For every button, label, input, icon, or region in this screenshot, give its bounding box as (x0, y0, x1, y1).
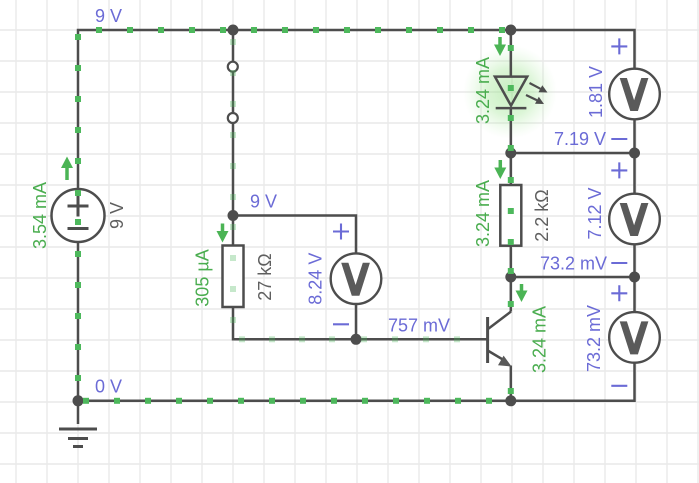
label 3.24 mA Q1 (530, 306, 550, 373)
left rail dots (75, 34, 81, 40)
wire row2 (511, 152, 635, 155)
label 3.24 mA R2 (473, 180, 493, 247)
current arrow R1 (217, 224, 229, 243)
resistor R2 label 2.2 kOhm (532, 189, 552, 241)
label 1.81 V (586, 66, 606, 118)
minus M2 (611, 262, 627, 264)
wire bottom rail (78, 362, 635, 400)
switch S1 (228, 62, 238, 123)
node row3 left (505, 272, 516, 283)
battery B1 (52, 189, 105, 242)
LED D1 (495, 77, 527, 109)
label 757 mV (388, 316, 450, 336)
svg-text:7.12 V: 7.12 V (585, 187, 605, 239)
svg-text:757 mV: 757 mV (388, 316, 450, 336)
svg-text:9 V: 9 V (95, 6, 122, 26)
junction node dots (73, 25, 641, 407)
svg-text:0 V: 0 V (95, 377, 122, 397)
wire row3 (511, 276, 635, 279)
label 9V top (95, 6, 122, 26)
label 0V (95, 377, 122, 397)
current arrow collector (516, 284, 528, 302)
node top B (228, 25, 239, 36)
minus M4 (333, 323, 349, 325)
node row3 right (629, 272, 640, 283)
svg-text:3.24 mA: 3.24 mA (473, 57, 493, 124)
minus M1 (611, 138, 627, 140)
top rail dots (96, 27, 102, 33)
R2 column dots (508, 177, 514, 183)
node top D (505, 25, 516, 36)
label 3.24 mA LED (473, 57, 493, 124)
LED glow (463, 45, 557, 139)
polarity signs (333, 38, 627, 385)
R1 column faint dots (230, 224, 236, 230)
node row2 left (505, 148, 516, 159)
label 7.19 V (554, 129, 606, 149)
svg-text:73.2 mV: 73.2 mV (584, 305, 604, 372)
svg-text:3.24 mA: 3.24 mA (530, 306, 550, 373)
wire LED bottom (510, 108, 513, 153)
wire voltmeter M4 bottom (355, 304, 358, 340)
current arrow R2 (494, 160, 506, 179)
emitter dot (508, 388, 514, 394)
current dots faint (230, 39, 460, 342)
voltmeter M2 (609, 194, 660, 245)
current arrow battery (61, 157, 73, 181)
node base net (351, 334, 362, 345)
label 7.12 V (585, 187, 605, 239)
plus M2 (611, 162, 627, 178)
svg-text:7.19 V: 7.19 V (554, 129, 606, 149)
LED D1 light arrows (526, 83, 548, 104)
wire top rail (78, 30, 635, 189)
node 9V mid (228, 210, 239, 221)
voltmeter M4 (331, 253, 382, 304)
wire emitter (510, 366, 513, 401)
current dots solid (75, 27, 514, 404)
R1 bottom wire faint dots (239, 336, 245, 342)
svg-text:3.54 mA: 3.54 mA (30, 182, 50, 249)
wire base (356, 338, 488, 341)
node row2 right (629, 148, 640, 159)
svg-text:305 µA: 305 µA (193, 249, 213, 306)
svg-text:2.2 kΩ: 2.2 kΩ (532, 189, 552, 241)
svg-text:1.81 V: 1.81 V (586, 66, 606, 118)
label 3.54 mA (30, 182, 50, 249)
wire R2 bottom (510, 246, 513, 277)
wire switch column (232, 30, 235, 246)
collector dot (508, 301, 514, 307)
svg-text:73.2 mV: 73.2 mV (540, 254, 607, 274)
wire voltmeter column M1-M2 (633, 119, 636, 194)
voltmeter M1 (609, 69, 660, 120)
wire voltmeter column M2-M3 (633, 244, 636, 312)
battery B1 label 9 V (107, 202, 127, 229)
node emitter (505, 395, 516, 406)
label 73.2 mV row3 (540, 254, 607, 274)
voltmeter M3 (609, 312, 660, 363)
wire left rail lower (77, 242, 80, 401)
base wire faint dots (361, 336, 367, 342)
wire R2 top (510, 153, 513, 185)
transistor Q1 (488, 312, 512, 367)
svg-text:8.24 V: 8.24 V (306, 253, 326, 305)
plus M1 (611, 38, 627, 54)
wire node 9V to voltmeter M4 (233, 216, 356, 254)
plus M3 (611, 285, 627, 301)
wire collector (510, 277, 513, 312)
svg-text:27 kΩ: 27 kΩ (255, 253, 275, 300)
resistor R1 label 27 kOhm (255, 253, 275, 300)
current arrow LED (494, 37, 506, 56)
minus M3 (611, 385, 627, 387)
node ground (73, 395, 84, 406)
svg-text:9 V: 9 V (250, 192, 277, 212)
wire below R1 (233, 307, 356, 339)
label 305 uA (193, 249, 213, 306)
ground (59, 401, 97, 447)
svg-text:9 V: 9 V (107, 202, 127, 229)
resistor R2 (500, 185, 521, 246)
bottom rail dots (83, 398, 89, 404)
svg-text:3.24 mA: 3.24 mA (473, 180, 493, 247)
label 73.2 mV vertical (584, 305, 604, 372)
label 8.24 V (306, 253, 326, 305)
LED column dots (508, 45, 514, 51)
resistor R1 (223, 246, 244, 308)
label 9V mid (250, 192, 277, 212)
switch column faint dots (230, 39, 236, 45)
wire LED top (510, 30, 513, 77)
plus M4 (333, 224, 349, 240)
